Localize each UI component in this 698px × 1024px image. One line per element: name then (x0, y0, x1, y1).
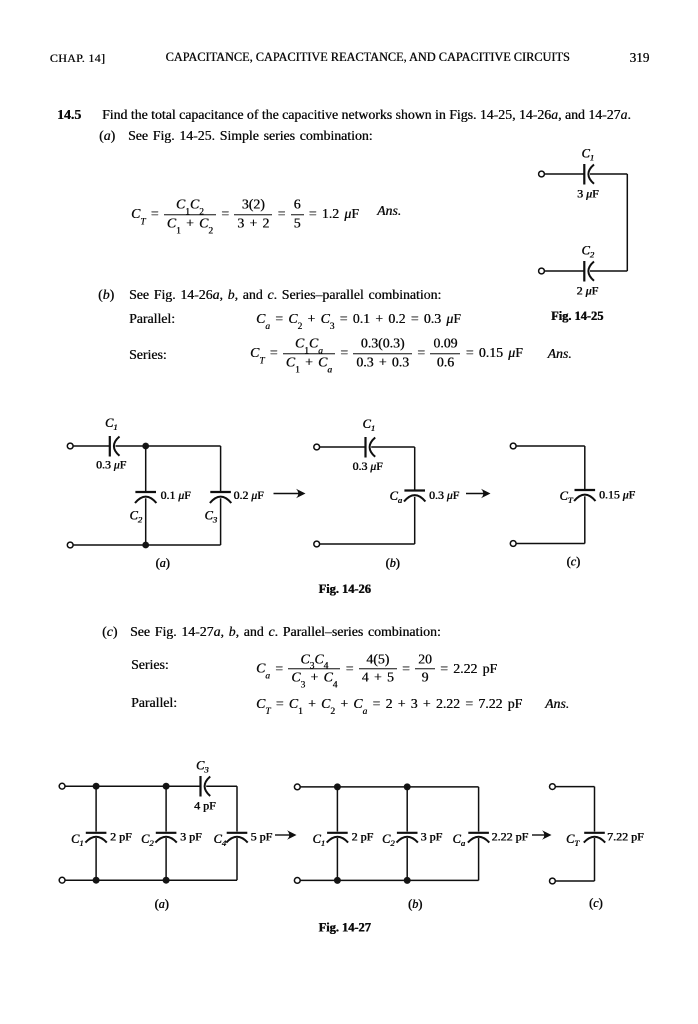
wire top rail to C3 (a) (65, 785, 200, 787)
equation 1 (131, 198, 359, 231)
svg-text:(c): (c) (567, 554, 581, 568)
node top C2 (b) (404, 783, 411, 790)
capacitor C4 (226, 833, 247, 843)
wire C4 branch upper (236, 786, 238, 831)
arrow a to b (274, 489, 306, 499)
terminal bottom-left (a) (59, 877, 65, 883)
parallel equation (c) (131, 695, 177, 711)
node top C1 branch (93, 783, 100, 790)
circuit (a) terminal top-left (59, 783, 65, 789)
wire bottom rail (a) (65, 879, 237, 881)
wire C1 to right rail (b) (371, 446, 415, 448)
series equation (129, 347, 167, 363)
svg-text:C2: C2 (141, 832, 154, 848)
terminal top-left (539, 171, 545, 177)
terminal bottom-left (c) (550, 878, 556, 884)
terminal bottom-left (b) (314, 541, 320, 547)
svg-text:Fig. 14-26: Fig. 14-26 (319, 582, 371, 596)
svg-text:C4: C4 (214, 832, 227, 848)
svg-text:0.15 μF: 0.15 μF (599, 488, 636, 502)
capacitor C1 (b) (366, 437, 376, 458)
wire bottom rail (c) (555, 880, 594, 882)
svg-text:C1: C1 (363, 417, 376, 433)
wire C2 branch upper (b) (406, 787, 408, 832)
svg-text:C1: C1 (105, 416, 118, 432)
wire C1 to node (116, 445, 221, 447)
line (a) (99, 128, 115, 144)
svg-text:CT: CT (566, 832, 580, 848)
svg-text:(c): (c) (589, 896, 603, 910)
svg-text:0.3 μF: 0.3 μF (429, 488, 460, 502)
wire C3 to corner (a) (206, 785, 237, 787)
wire Ca branch upper (right rail b) (478, 787, 480, 832)
capacitor CT (c) (584, 833, 605, 843)
wire top rail (c) (516, 445, 585, 447)
capacitor C3 (210, 492, 231, 503)
svg-text:2.22 pF: 2.22 pF (492, 830, 529, 844)
node top C2 branch (163, 783, 170, 790)
wire C1 branch upper (a) (95, 786, 97, 831)
node bottom C1 (b) (334, 877, 341, 884)
circuit (b) terminal top-left (314, 444, 320, 450)
svg-text:(b): (b) (408, 897, 422, 911)
problem 14.5 statement (57, 107, 81, 123)
capacitor C2 (b) (397, 833, 418, 843)
svg-text:0.3 μF: 0.3 μF (96, 458, 127, 472)
line (b) (98, 287, 114, 303)
terminal bottom-left (c) (510, 541, 516, 547)
wire C1 branch upper (b) (336, 787, 338, 832)
arrow b to c (466, 489, 491, 499)
wire right rail (626, 174, 628, 271)
wire top rail (b) (300, 786, 478, 788)
wire C1 to right rail (590, 173, 627, 175)
wire bottom rail (a) (73, 544, 220, 546)
wire right rail lower (c) (584, 496, 586, 543)
wire branch C3 upper (220, 446, 222, 492)
svg-text:2 μF: 2 μF (577, 284, 599, 298)
circuit (c) terminal top-left (510, 443, 516, 449)
circuit (b) terminal top-left (294, 784, 300, 790)
capacitor C2 (135, 492, 156, 503)
wire top-left to C1 (545, 173, 585, 175)
svg-text:5 pF: 5 pF (251, 830, 273, 844)
capacitor C2 (a) (155, 833, 176, 843)
arrow b to c (532, 830, 552, 840)
capacitor C1 (b) (327, 833, 348, 843)
svg-text:4 pF: 4 pF (194, 799, 216, 813)
terminal bottom-left (b) (294, 878, 300, 884)
wire C1 branch lower (a) (95, 838, 97, 880)
wire C2 branch lower (a) (165, 838, 167, 880)
figure Fig. 14-25: series capacitors C1 and C2 (528, 140, 668, 330)
figure Fig. 14-27: parallel-series reduction, circuits (a) (b) (c) (0, 750, 698, 945)
svg-text:C3: C3 (205, 509, 218, 525)
figure Fig. 14-26: series-parallel reduction, circuits (a) (b) (c) (0, 405, 698, 600)
svg-text:Ca: Ca (390, 489, 403, 505)
wire branch C2 lower (145, 498, 147, 545)
wire C2 branch lower (b) (406, 838, 408, 880)
svg-text:CT: CT (560, 489, 574, 505)
wire branch C3 lower (220, 498, 222, 545)
svg-text:C2: C2 (582, 244, 595, 260)
wire bottom rail (b) (300, 879, 478, 881)
svg-text:C3: C3 (196, 759, 209, 775)
wire Ca branch lower (b) (478, 838, 480, 880)
svg-text:2 pF: 2 pF (352, 830, 374, 844)
svg-text:C1: C1 (313, 832, 326, 848)
wire terminal to C1 (73, 445, 109, 447)
svg-text:0.1 μF: 0.1 μF (161, 488, 192, 502)
circuit (c) terminal top-left (550, 784, 556, 790)
terminal bottom-left (a) (67, 542, 73, 548)
arrow a to b (275, 830, 297, 840)
terminal bottom-left (539, 268, 545, 274)
svg-text:0.3 μF: 0.3 μF (353, 459, 384, 473)
svg-text:0.2 μF: 0.2 μF (234, 488, 265, 502)
wire C1 branch lower (b) (336, 838, 338, 880)
node junction top (142, 443, 149, 450)
wire CT branch upper (c) (594, 787, 596, 832)
svg-text:Ca: Ca (453, 832, 466, 848)
svg-text:(a): (a) (155, 897, 169, 911)
wire C2 branch upper (a) (165, 786, 167, 831)
capacitor Ca (404, 491, 425, 502)
node junction bottom (142, 542, 149, 549)
wire bottom to C2 (545, 270, 585, 272)
series equation (c) (131, 657, 169, 673)
svg-text:(b): (b) (386, 556, 400, 570)
capacitor Ca (b) (468, 833, 489, 843)
svg-text:Fig. 14-27: Fig. 14-27 (319, 921, 371, 935)
parallel equation (129, 311, 175, 327)
wire top rail (c) (555, 786, 594, 788)
node bottom C1 branch (93, 877, 100, 884)
header row (50, 51, 105, 66)
wire C4 branch lower (236, 838, 238, 880)
wire C2 to right rail (590, 270, 627, 272)
node top C1 (b) (334, 783, 341, 790)
capacitor C1 (a) (85, 833, 106, 843)
capacitor CT (c) (574, 490, 595, 501)
capacitor C2 (584, 261, 594, 282)
svg-text:Fig. 14-25: Fig. 14-25 (551, 309, 603, 323)
svg-text:C2: C2 (382, 832, 395, 848)
node bottom C2 branch (163, 877, 170, 884)
wire bottom rail (b) (320, 543, 415, 545)
capacitor C1 (584, 164, 594, 185)
svg-text:C1: C1 (582, 147, 595, 163)
svg-text:C1: C1 (71, 832, 84, 848)
svg-text:3 pF: 3 pF (180, 830, 202, 844)
line (c) (102, 624, 117, 640)
wire branch C2 upper (145, 446, 147, 492)
node bottom C2 (b) (404, 877, 411, 884)
svg-text:3 μF: 3 μF (577, 187, 599, 201)
wire right rail upper (b) (414, 447, 416, 490)
wire right rail upper (c) (584, 446, 586, 490)
svg-text:7.22 pF: 7.22 pF (607, 830, 644, 844)
svg-text:(a): (a) (156, 556, 170, 570)
svg-text:2 pF: 2 pF (110, 830, 132, 844)
svg-text:C2: C2 (130, 509, 143, 525)
circuit (a) terminal top-left (67, 443, 73, 449)
capacitor C1 (a) (110, 436, 120, 457)
capacitor C3 (201, 776, 211, 797)
wire CT branch lower (c) (594, 838, 596, 881)
wire bottom rail (c) (516, 543, 585, 545)
wire right rail lower (b) (414, 497, 416, 544)
svg-text:3 pF: 3 pF (421, 830, 443, 844)
wire terminal to C1 (b) (320, 446, 366, 448)
